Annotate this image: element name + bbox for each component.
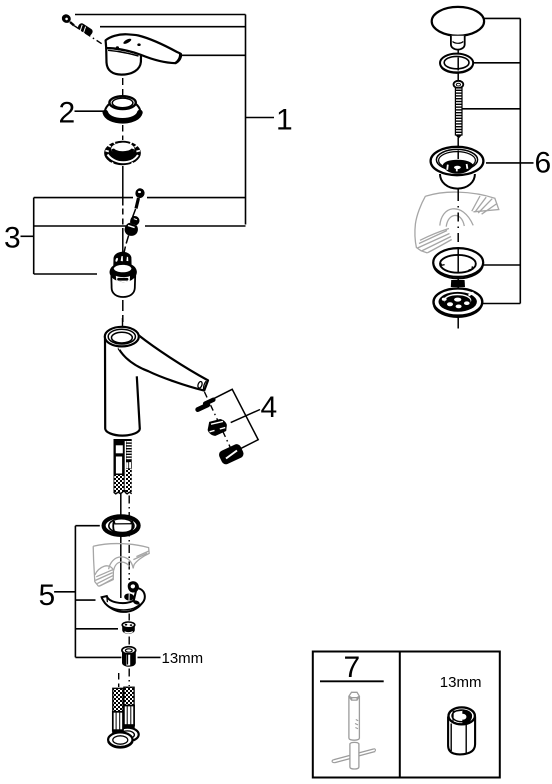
- bracket 5: [54, 526, 121, 658]
- supply hoses: [108, 673, 139, 747]
- svg-text:5: 5: [39, 579, 56, 612]
- aerator seal: [195, 397, 217, 413]
- body centerline top: [122, 318, 124, 326]
- cartridge screw: [134, 187, 145, 208]
- leader and label 13mm: [138, 656, 161, 658]
- aerator axis dash-dot: [205, 392, 232, 449]
- drain flange: [431, 147, 484, 189]
- mounting shank and hose: [114, 439, 132, 494]
- bracket 4: [212, 389, 259, 448]
- set screw: [77, 22, 94, 37]
- svg-text:13mm: 13mm: [162, 650, 204, 667]
- centerline below mounting ring: [122, 166, 124, 252]
- cap ring part 2: [105, 96, 140, 121]
- drain centerline lower: [457, 138, 459, 329]
- svg-text:2: 2: [59, 97, 76, 130]
- valve axis dash-dot: [124, 209, 135, 252]
- lower centerlines: [120, 494, 122, 599]
- label 7 underline: [320, 680, 384, 682]
- svg-text:4: 4: [261, 391, 278, 424]
- svg-text:3: 3: [4, 222, 21, 255]
- drain strainer: [434, 280, 483, 317]
- leader and label 2: [75, 110, 104, 112]
- o-ring: [104, 516, 139, 535]
- faucet body: [105, 327, 208, 436]
- drain lower ring: [433, 248, 483, 279]
- callout bracket 6: [463, 18, 534, 303]
- svg-text:13mm: 13mm: [440, 674, 482, 691]
- svg-text:7: 7: [344, 651, 361, 684]
- handle screw: [60, 13, 74, 26]
- ghost basin left: [93, 544, 149, 587]
- drain plug cap: [432, 7, 484, 50]
- drain screw: [454, 81, 464, 139]
- ghost basin right: [415, 192, 499, 253]
- aerator housing: [218, 443, 245, 466]
- socket nut: [448, 707, 475, 754]
- svg-text:1: 1: [276, 103, 293, 136]
- centerline between rings: [122, 125, 124, 140]
- drain seal ring: [440, 54, 473, 74]
- handle centerline: [122, 78, 124, 95]
- socket tool: [332, 692, 375, 769]
- check valve: [125, 216, 140, 236]
- washer nut: [122, 622, 135, 634]
- lever handle: [106, 34, 181, 74]
- parts box: [313, 652, 500, 778]
- horseshoe washer: [102, 581, 145, 612]
- drain centerline top: [457, 50, 459, 81]
- mounting ring: [104, 141, 141, 165]
- cartridge: [110, 252, 137, 297]
- svg-text:6: 6: [535, 147, 552, 180]
- leader 4: [231, 410, 260, 423]
- hex nut 13mm: [122, 647, 136, 667]
- screw axis dash-dot: [74, 26, 104, 46]
- callout bracket 1: [34, 15, 274, 227]
- centerline cartridge to body: [122, 300, 124, 322]
- callout bracket 3: [21, 198, 98, 274]
- aerator insert: [207, 419, 227, 437]
